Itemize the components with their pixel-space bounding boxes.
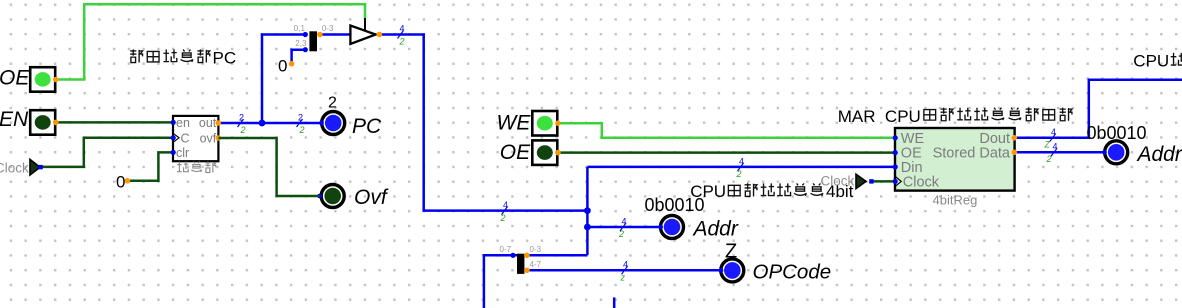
input OE (button, value 1) [0,67,55,92]
output pin PC [319,95,382,139]
svg-text:0b0010: 0b0010 [645,195,705,215]
svg-text:ovf: ovf [200,132,217,146]
svg-text:OPCode: OPCode [753,261,832,284]
wire: splitter out to driver in [320,33,351,36]
svg-text:Clock: Clock [903,174,940,190]
svg-text:0-7: 0-7 [500,245,512,254]
wire annotation 4-bit (Dout) [1044,127,1057,149]
junction node main bus / vertical [584,207,591,214]
svg-text:Clock: Clock [821,174,855,189]
svg-text:4: 4 [739,156,744,166]
svg-text:C: C [181,132,190,146]
svg-text:z: z [620,272,626,282]
wire: OE button to MAR OE (dark green) [558,151,895,154]
wire: MAR Stored Data to Addr pin (right) [1014,151,1104,154]
svg-text:4bitReg: 4bitReg [933,193,978,208]
wire: Din bus from MAR left across to vertical [587,166,895,169]
svg-text:Addr: Addr [692,217,739,240]
svg-text:4: 4 [503,200,508,210]
wire annotation 4-bit (driver out) [398,24,405,47]
wire annotation 2-bit (near counter) [238,113,246,136]
clock input Clock (right) [821,174,874,189]
constant 0 (splitter 2,3) [278,56,294,75]
svg-text:2: 2 [328,95,337,112]
svg-text:Addr: Addr [1136,143,1182,166]
svg-text:Z: Z [1044,140,1051,150]
svg-text:Stored Data: Stored Data [933,145,1011,161]
register U2 4bitReg (MAR) [893,128,1017,191]
constant 0 (counter clr) [116,173,130,192]
input OE mid (button, value 0) [500,140,561,165]
wire: driver enable stub (black lead) [364,18,366,31]
output pin Ovf [317,185,389,209]
wire: counter out to PC pin (2-bit bus) [218,122,321,125]
svg-text:0-3: 0-3 [530,245,542,254]
wire: constant 0 to counter clr (dark green) [128,152,173,180]
label 程序计数器PC [130,49,210,62]
counter pin dots [171,120,176,125]
EN button orange pin [53,120,59,126]
splitter S2 (8 to 4+4) [500,245,542,274]
splitter S1 (2+2 to 4) [294,24,334,52]
wire: vertical 4-bit bus [586,167,589,255]
svg-text:2: 2 [399,37,405,47]
output pin Addr (right) [1102,141,1182,166]
wire: 8-bit bus from bottom into splitter 0-7 [484,255,517,308]
svg-text:0: 0 [278,56,287,75]
driver (tri-state buffer) [350,26,382,45]
svg-text:clr: clr [176,146,189,160]
svg-text:4: 4 [400,24,405,34]
wire: EN to counter en (dark green) [56,121,173,124]
svg-text:2: 2 [618,229,624,239]
svg-text:en: en [176,116,190,130]
wire: MAR Dout to top right edge [1014,80,1182,138]
svg-text:2: 2 [736,169,742,179]
svg-text:0: 0 [116,173,125,192]
wire: Clock2 to MAR Clock (dark green) [871,180,895,183]
counter U1 计数器 [173,116,218,161]
output pin Addr (middle) [658,216,739,241]
svg-text:Z: Z [725,240,737,262]
svg-text:MAR CPU: MAR CPU [838,107,921,126]
wire: driver out down to main bus junction [379,35,587,211]
svg-text:PC: PC [213,49,237,68]
svg-text:CPU: CPU [1133,52,1169,71]
svg-text:4: 4 [1051,127,1056,137]
svg-text:OE: OE [0,67,30,90]
counter name 计数器 (gray) [177,161,216,172]
wire annotation 4-bit (Stored Data) [1046,142,1058,164]
junction node on PC bus [259,120,266,127]
svg-text:out: out [199,116,217,130]
svg-text:WE: WE [497,112,532,135]
wire: Clock to counter C (dark green) [42,138,173,167]
output pin OPCode [719,240,832,283]
wire: OE enable net (bright green) from OE button to driver enable [56,4,365,79]
svg-text:2: 2 [240,125,246,135]
wire annotation 2-bit (near PC pin) [297,113,305,136]
wire annotation 4-bit (OPCode) [620,260,629,283]
svg-text:4: 4 [622,216,627,226]
svg-text:2,3: 2,3 [295,39,307,48]
wire: constant 0 to splitter leg 2,3 [292,50,306,63]
wire: bottom stub [613,297,616,308]
wire: ovf to Ovf pin (dark green) [218,138,319,196]
svg-text:0,1: 0,1 [294,24,306,33]
svg-text:2: 2 [299,125,305,135]
wire annotation 4-bit (main bus) [500,200,509,223]
svg-text:2: 2 [500,213,506,223]
junction node Addr branch [584,224,591,231]
input EN (button, value 0) [0,108,55,135]
wire: bottom run to splitter 0-3 [524,254,587,257]
svg-text:0-3: 0-3 [322,24,334,33]
svg-text:4-7: 4-7 [530,260,542,269]
wire annotation 4-bit (middle Addr) [618,216,627,239]
svg-text:2: 2 [239,113,244,123]
wire: PC bus up to splitter leg 0,1 [262,35,305,124]
svg-text:2: 2 [298,113,303,123]
svg-text:2: 2 [1046,154,1052,164]
wire: WE button to MAR WE (bright green) [558,123,895,138]
clock input Clock (left) [0,159,43,175]
wire: bus to Addr pin (middle) [587,226,660,229]
OE button orange pin [53,77,59,83]
svg-text:4: 4 [1053,142,1058,152]
svg-text:4: 4 [623,260,628,270]
wire: splitter 4-7 to OPCode pin [524,269,721,272]
wire annotation 4-bit (Din) [736,156,745,179]
svg-text:EN: EN [0,108,29,131]
svg-text:Clock: Clock [0,161,29,176]
svg-text:OE: OE [500,141,531,164]
input WE (button, value 1) [497,111,561,136]
svg-text:PC: PC [352,115,382,138]
svg-text:Ovf: Ovf [354,186,389,209]
